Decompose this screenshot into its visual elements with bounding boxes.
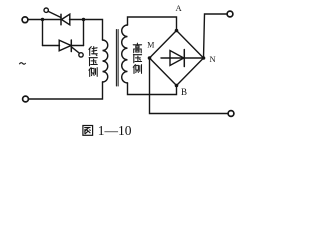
transformer primary winding (low-voltage side) [103,40,108,82]
wire N to output terminal T3 [204,14,228,58]
wire secondary bottom to node B [128,83,177,95]
svg-text:A: A [176,3,183,13]
wire X1 down to bottom branch [42,20,44,46]
label ~ (AC) [19,63,25,65]
node X2 [82,18,85,21]
wire X2 down to bottom branch [83,20,85,46]
压 [89,58,97,66]
侧 [89,68,97,77]
diode VD inside bridge [161,50,204,67]
svg-text:1—10: 1—10 [98,123,132,138]
低 [89,47,97,56]
transformer secondary winding (high-voltage side) [122,25,128,83]
svg-text:N: N [210,54,216,64]
node M dot [148,56,152,60]
高 [133,43,141,53]
wire secondary top to node A [128,17,177,31]
gate lead of V2 [71,47,79,53]
thyristor V1 (top, cathode left) [61,14,70,25]
bridge rectifier diamond [150,31,204,86]
node B dot [175,84,179,88]
gate terminal circle of V1 [44,8,48,12]
terminal T1 (AC input top-left) [22,17,28,23]
terminal T4 (DC output bottom-right) [228,111,234,117]
node N dot [202,56,206,60]
wire primary bottom to terminal T2 [29,82,103,99]
压 [133,55,141,63]
wire bottom branch right [71,45,83,47]
terminal T3 (DC output top-right) [227,11,233,17]
thyristor V2 (bottom, anode left) [59,40,71,52]
wire bottom branch left [43,45,60,47]
wire top branch right [70,19,84,21]
侧 [133,65,141,74]
node A dot [175,29,179,33]
wire M to output terminal T4 [150,58,229,114]
label 低压侧 (low-voltage side), hand-drawn glyphs [89,47,97,77]
svg-text:B: B [181,87,187,97]
wire top branch left [43,19,62,21]
gate terminal circle of V2 [79,53,83,57]
transformer core [115,30,117,87]
label 高压侧 (high-voltage side), hand-drawn glyphs [133,43,141,73]
wire X2 to primary top corner [84,20,103,41]
svg-text:M: M [147,41,154,50]
gate lead of V1 [48,11,61,17]
node X1 [41,18,44,21]
terminal T2 (AC input bottom-left) [23,96,29,102]
caption 图 (figure), hand-drawn glyph [83,126,93,136]
wire T1 to node X1 [28,19,43,21]
